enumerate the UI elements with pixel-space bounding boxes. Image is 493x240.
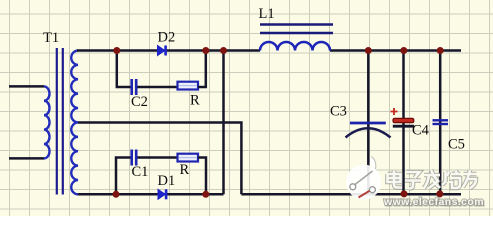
transformer T1 primary winding <box>44 86 50 158</box>
svg-text:T1: T1 <box>43 30 59 46</box>
wire bottom snubber middle <box>138 156 178 159</box>
wire C4 column <box>402 51 405 194</box>
resistor R (bottom) <box>178 154 199 162</box>
wire top snubber left vertical <box>117 51 131 88</box>
transformer T1 core line 1 <box>56 48 58 195</box>
junction bottom rail at R branch <box>202 191 209 198</box>
junction top rail at C3 <box>365 47 372 54</box>
diode D1 <box>158 189 166 199</box>
wire bottom snubber right vertical <box>198 158 206 195</box>
capacitor C4 plus sign <box>391 108 398 115</box>
capacitor C1 <box>132 150 137 166</box>
svg-text:www.elecfans.com: www.elecfans.com <box>383 196 484 208</box>
watermark logo red line <box>359 191 370 198</box>
transformer T1 secondary winding <box>71 51 78 195</box>
watermark logo diagonal line <box>355 171 373 185</box>
junction bottom rail at C5 <box>436 190 443 197</box>
wire primary bottom lead <box>9 157 44 160</box>
watermark chinese char dian <box>388 171 403 188</box>
junction top rail at C5 <box>437 47 444 54</box>
svg-text:C2: C2 <box>131 94 148 110</box>
transformer T1 core line 2 <box>62 48 64 195</box>
wire top snubber right vertical <box>198 51 206 88</box>
wire vertical D1-output to top rail <box>222 51 225 195</box>
junction top rail at R branch <box>202 47 209 54</box>
wire top rail right segment <box>330 49 461 52</box>
watermark logo circle blob <box>346 157 381 200</box>
resistor R (top) <box>178 82 199 90</box>
wire primary top lead <box>9 85 44 88</box>
wire bottom rail left segment <box>78 193 224 196</box>
wire top snubber middle <box>138 86 178 89</box>
inductor L1 core bar 1 <box>260 23 333 25</box>
inductor L1 winding <box>260 42 330 51</box>
svg-text:C3: C3 <box>330 104 347 120</box>
junction top rail at C2 branch <box>113 47 120 54</box>
capacitor C3 <box>346 123 391 138</box>
svg-text:L1: L1 <box>259 6 275 22</box>
inductor L1 core bar 2 <box>260 32 333 34</box>
wire C3 column <box>367 51 370 194</box>
watermark chinese char fa <box>424 170 440 188</box>
wire center tap <box>78 123 241 195</box>
watermark chinese char you <box>463 170 477 188</box>
diode D2 <box>158 46 166 56</box>
watermark logo small circle left <box>350 184 356 190</box>
svg-text:C1: C1 <box>132 164 149 180</box>
svg-text:C4: C4 <box>412 123 430 139</box>
capacitor C2 <box>132 79 137 95</box>
watermark chinese char zi <box>405 172 421 189</box>
svg-text:C5: C5 <box>448 137 465 153</box>
svg-text:R: R <box>190 93 200 109</box>
wire top rail left segment <box>77 49 260 52</box>
junction top rail at C4 <box>400 47 407 54</box>
wire C5 column <box>439 51 442 194</box>
junction bottom rail at C1 branch <box>113 191 120 198</box>
svg-text:D2: D2 <box>158 30 176 46</box>
junction top rail at D1 output vertical <box>220 47 227 54</box>
svg-text:D1: D1 <box>158 173 176 189</box>
watermark logo small circle right <box>369 187 375 193</box>
capacitor C4 <box>393 118 414 126</box>
junction bottom rail at C4 <box>401 190 408 197</box>
wire bottom rail right segment <box>241 193 461 196</box>
svg-text:R: R <box>180 162 190 178</box>
wire bottom snubber left vertical <box>116 158 131 195</box>
capacitor C5 <box>433 120 449 124</box>
watermark chinese char shao <box>442 171 461 189</box>
